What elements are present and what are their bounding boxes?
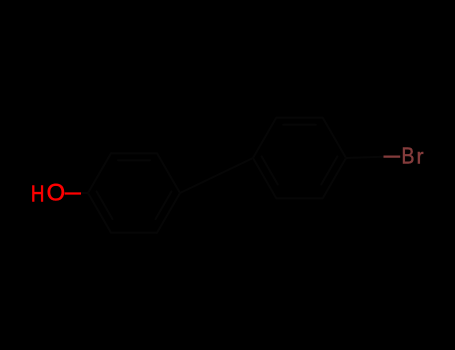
wire: black part of O-C bond (80, 192, 88, 194)
wire: ring A edge BL-L inner double line (97, 191, 113, 219)
wire: ring A edge R-BR (double bond outer) (157, 193, 180, 233)
wire: ring A edge L-TL (88, 153, 111, 193)
wire: ring B edge R-BR (double bond outer) (323, 158, 346, 198)
wire: red O-C bond stub (65, 192, 81, 194)
svg-text:r: r (417, 145, 424, 169)
svg-text:O: O (47, 181, 66, 207)
svg-text:H: H (31, 180, 45, 206)
wire: ring B edge L-TL (253, 118, 276, 158)
wire: ring B edge BR-BL (276, 197, 323, 199)
wire: ring A edge BR-BL (111, 232, 157, 234)
wire: ring B edge TL-TR inner double line (283, 124, 316, 126)
svg-text:B: B (401, 143, 414, 169)
wire: ring B edge BL-L inner double line (262, 156, 278, 184)
wire: ring B edge TL-TR (double bond outer) (276, 117, 323, 119)
wire: ring A edge TR-R (157, 153, 180, 193)
wire: ring A edge TL-TR (double bond outer) (111, 152, 157, 154)
wire: ring A edge TL-TR inner double line (118, 159, 150, 161)
benzene ring A (phenol ring) (88, 153, 180, 233)
wire: connector bond between rings (180, 158, 253, 193)
wire: black part of C-Br bond (346, 157, 384, 158)
wire: ring B edge R-BR inner double line (321, 156, 337, 184)
wire: ring B edge BL-L (double bond outer) (253, 158, 276, 198)
wire: dark red C-Br bond stub (384, 156, 401, 158)
wire: ring A edge BL-L (double bond outer) (88, 193, 111, 233)
benzene ring B (bromophenyl ring) (253, 118, 346, 199)
wire: ring A edge R-BR inner double line (156, 191, 172, 219)
wire: ring B edge TR-R (323, 118, 346, 158)
